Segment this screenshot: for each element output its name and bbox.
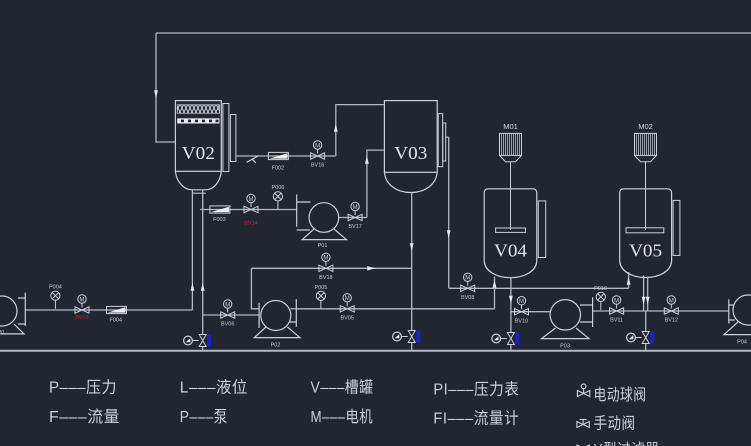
svg-text:M02: M02 — [638, 122, 653, 131]
svg-text:BV16: BV16 — [311, 163, 324, 169]
svg-text:P005: P005 — [314, 285, 327, 291]
svg-text:P03: P03 — [560, 344, 570, 350]
svg-text:手动阀: 手动阀 — [594, 415, 636, 433]
svg-text:P004: P004 — [49, 285, 62, 291]
svg-text:V04: V04 — [494, 241, 527, 261]
svg-text:BV12: BV12 — [665, 318, 678, 324]
svg-text:P0: P0 — [0, 330, 4, 336]
svg-text:V02: V02 — [182, 143, 215, 163]
svg-text:Y型过滤器: Y型过滤器 — [594, 441, 660, 446]
svg-text:P01: P01 — [318, 243, 328, 249]
svg-text:P–––泵: P–––泵 — [180, 408, 228, 426]
svg-text:BV18: BV18 — [319, 275, 332, 281]
svg-text:F004: F004 — [110, 318, 123, 324]
svg-text:P006: P006 — [271, 185, 284, 191]
svg-text:BV17: BV17 — [348, 224, 361, 230]
svg-text:BV10: BV10 — [515, 319, 528, 325]
svg-text:P010: P010 — [594, 286, 607, 292]
svg-text:BV11: BV11 — [610, 318, 623, 324]
svg-text:PI–––压力表: PI–––压力表 — [433, 381, 519, 399]
svg-text:F002: F002 — [272, 166, 285, 172]
svg-text:M01: M01 — [503, 122, 518, 131]
svg-text:F003: F003 — [213, 217, 226, 223]
svg-text:P04: P04 — [737, 340, 747, 346]
svg-text:V03: V03 — [394, 143, 427, 163]
svg-text:P–––压力: P–––压力 — [49, 379, 117, 397]
svg-text:F–––流量: F–––流量 — [49, 408, 120, 426]
svg-text:BV08: BV08 — [461, 295, 474, 301]
svg-text:P02: P02 — [271, 343, 281, 349]
svg-text:BV14: BV14 — [244, 221, 257, 227]
svg-text:电动球阀: 电动球阀 — [594, 386, 647, 404]
svg-text:V05: V05 — [629, 241, 662, 261]
svg-text:BV05: BV05 — [340, 316, 353, 322]
svg-text:V–––槽罐: V–––槽罐 — [311, 379, 374, 397]
svg-text:L–––液位: L–––液位 — [180, 379, 248, 397]
svg-text:FI–––流量计: FI–––流量计 — [433, 410, 519, 428]
svg-text:M–––电机: M–––电机 — [311, 408, 374, 426]
svg-text:BV06: BV06 — [221, 322, 234, 328]
svg-text:BV03: BV03 — [75, 315, 88, 321]
